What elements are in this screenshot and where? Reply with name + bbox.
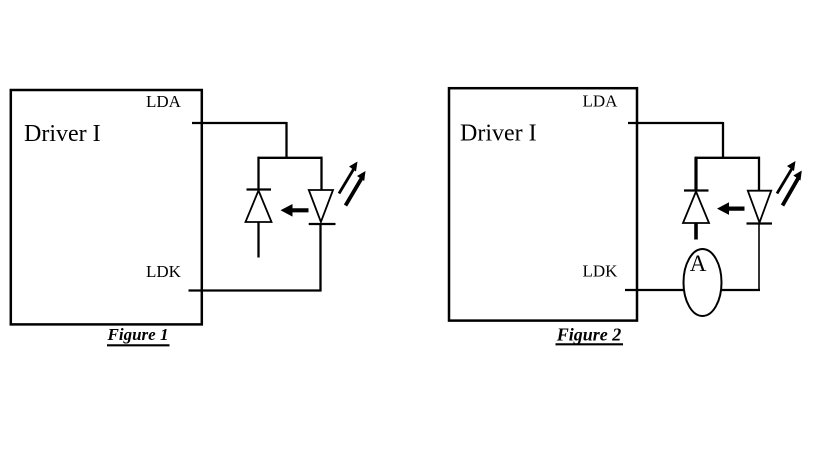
svg-text:A: A [690,251,707,276]
svg-text:Driver I: Driver I [24,121,101,147]
svg-text:LDA: LDA [146,92,182,111]
svg-text:Figure 1: Figure 1 [107,325,169,344]
svg-text:LDK: LDK [583,262,619,281]
svg-text:Driver I: Driver I [460,121,537,147]
svg-text:LDK: LDK [146,262,182,281]
svg-text:LDA: LDA [583,92,619,111]
svg-text:Figure 2: Figure 2 [556,325,622,345]
